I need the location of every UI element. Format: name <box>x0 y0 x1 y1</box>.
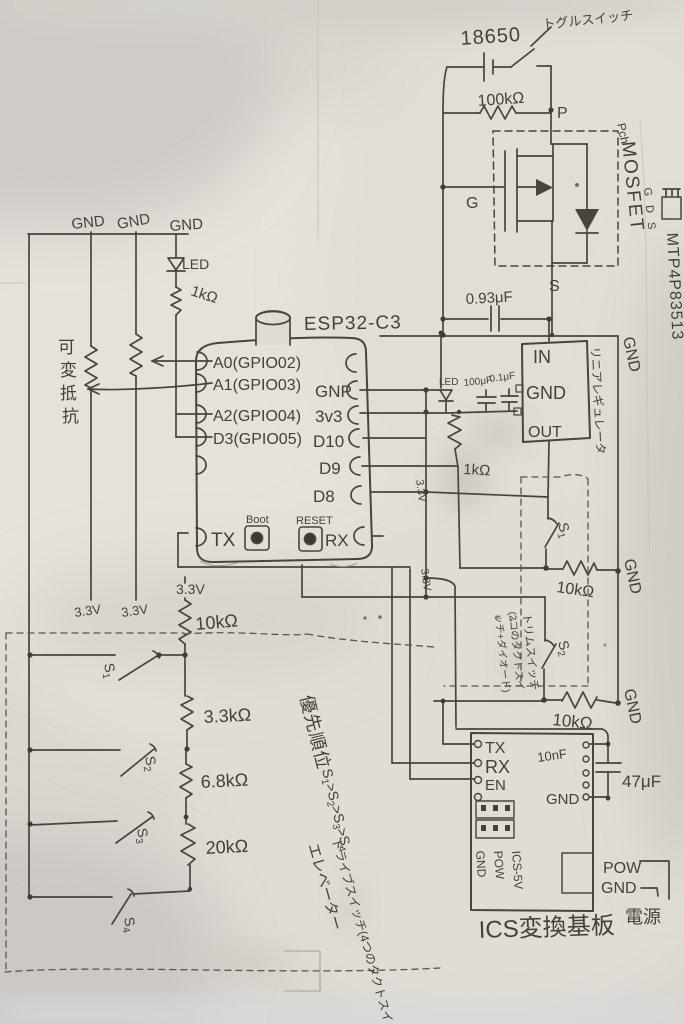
svg-text:TX: TX <box>211 530 236 551</box>
svg-text:RESET: RESET <box>296 515 333 527</box>
svg-text:ICS-5V: ICS-5V <box>509 850 526 890</box>
svg-text:Boot: Boot <box>246 514 269 526</box>
svg-text:3.3kΩ: 3.3kΩ <box>203 705 251 727</box>
svg-text:GND: GND <box>601 880 637 897</box>
svg-text:20kΩ: 20kΩ <box>205 836 248 858</box>
svg-text:D10: D10 <box>313 432 344 451</box>
svg-text:LED: LED <box>439 377 458 388</box>
svg-text:IN: IN <box>533 347 551 367</box>
svg-text:EN: EN <box>485 777 506 794</box>
svg-text:10kΩ: 10kΩ <box>195 610 239 634</box>
svg-text:TX: TX <box>485 740 506 757</box>
svg-text:100kΩ: 100kΩ <box>477 90 525 110</box>
svg-text:P: P <box>557 105 568 122</box>
svg-text:OUT: OUT <box>528 424 562 441</box>
svg-text:GND: GND <box>169 216 204 235</box>
svg-text:G: G <box>466 195 478 212</box>
svg-text:ICS変換基板: ICS変換基板 <box>478 912 615 944</box>
svg-text:GND: GND <box>526 383 566 403</box>
svg-text:RX: RX <box>485 757 510 777</box>
svg-text:抵: 抵 <box>60 384 77 403</box>
svg-text:可: 可 <box>58 338 75 357</box>
svg-text:RX: RX <box>325 531 349 550</box>
svg-text:6.8kΩ: 6.8kΩ <box>200 770 248 792</box>
svg-text:GNP: GNP <box>315 382 352 401</box>
svg-text:A1(GPIO03): A1(GPIO03) <box>213 377 301 394</box>
svg-text:POW: POW <box>491 850 507 880</box>
svg-text:S: S <box>549 278 560 295</box>
svg-text:3v3: 3v3 <box>315 407 342 426</box>
svg-text:ESP32-C3: ESP32-C3 <box>304 312 402 335</box>
svg-text:18650: 18650 <box>460 24 522 50</box>
svg-text:A0(GPIO02): A0(GPIO02) <box>213 355 301 372</box>
svg-text:POW: POW <box>603 860 642 877</box>
svg-text:D9: D9 <box>319 459 341 478</box>
svg-text:0.93μF: 0.93μF <box>465 289 513 308</box>
svg-text:A2(GPIO04): A2(GPIO04) <box>213 408 301 425</box>
svg-text:3.3V: 3.3V <box>176 581 205 597</box>
svg-text:GND: GND <box>71 213 106 233</box>
svg-text:GND: GND <box>546 791 580 808</box>
svg-text:変: 変 <box>60 361 77 380</box>
svg-text:D8: D8 <box>313 487 335 506</box>
svg-text:LED: LED <box>182 256 209 272</box>
svg-text:D3(GPIO05): D3(GPIO05) <box>213 431 302 448</box>
svg-text:47μF: 47μF <box>622 772 661 791</box>
svg-text:電源: 電源 <box>625 907 661 927</box>
svg-text:抗: 抗 <box>62 407 79 426</box>
svg-text:1kΩ: 1kΩ <box>463 461 491 479</box>
svg-text:GND: GND <box>473 850 489 878</box>
